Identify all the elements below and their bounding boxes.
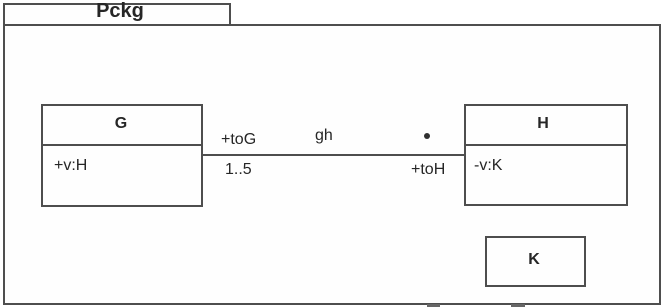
class H compartment divider bbox=[464, 144, 628, 146]
class H name label bbox=[462, 116, 624, 132]
package Pckg name label bbox=[10, 1, 230, 21]
class K name label bbox=[484, 252, 584, 268]
association multiplicity * (dot) bbox=[424, 133, 430, 139]
association role label +toG bbox=[221, 132, 256, 148]
class G attribute +v:H bbox=[54, 158, 87, 174]
class K box bbox=[485, 236, 586, 287]
class H box bbox=[464, 104, 628, 206]
cut-off text mark 2 below package border bbox=[511, 304, 525, 307]
association role label +toH bbox=[411, 162, 445, 178]
package Pckg tab bbox=[3, 3, 231, 26]
association name gh bbox=[315, 128, 333, 144]
cut-off text mark 1 below package border bbox=[427, 304, 440, 307]
association multiplicity 1..5 bbox=[225, 162, 252, 178]
class G box bbox=[41, 104, 203, 207]
class G compartment divider bbox=[41, 144, 203, 146]
association gh wire bbox=[203, 154, 464, 156]
class H attribute -v:K bbox=[474, 158, 502, 174]
class G name label bbox=[41, 116, 201, 132]
